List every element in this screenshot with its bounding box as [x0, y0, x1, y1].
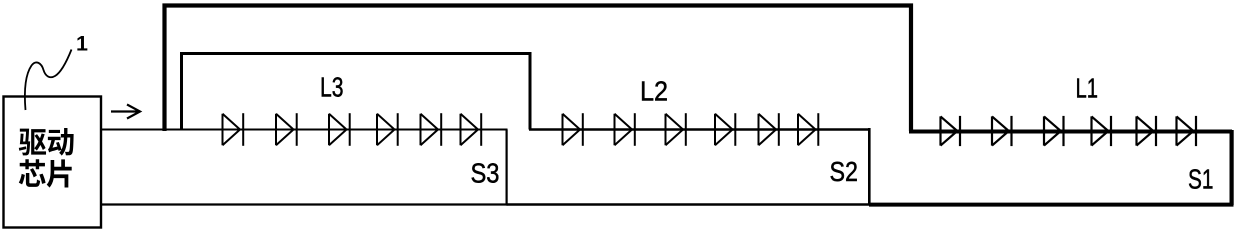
- svg-text:S3: S3: [471, 158, 500, 189]
- chip label char 芯: [19, 159, 46, 187]
- output current arrow: [111, 105, 140, 119]
- wire: L2 cathode drop to S2 return: [868, 128, 871, 205]
- svg-text:1: 1: [76, 32, 88, 56]
- LED 6 of string L3: [461, 113, 482, 146]
- LED 1 of string L3: [223, 113, 244, 146]
- LED 3 of string L2: [666, 113, 686, 146]
- LED 1 of string L1: [941, 116, 961, 146]
- LED 4 of string L3: [377, 113, 398, 146]
- wire: return bottom segment S3-to-S2: [507, 203, 871, 205]
- LED 5 of string L2: [759, 113, 779, 146]
- LED 6 of string L1: [1177, 116, 1197, 146]
- wire: L3 cathode drop to S3 return: [506, 130, 508, 205]
- LED 6 of string L2: [798, 113, 818, 146]
- chip label char 动: [48, 128, 74, 156]
- wire: L1 cathode drop to S1 return: [1229, 130, 1233, 205]
- LED 3 of string L3: [329, 113, 350, 146]
- wire: S2 loop feed (chip node up at x181, across, down to L2 anode): [182, 54, 531, 131]
- wire: chip output to L3 anode row: [100, 129, 508, 131]
- LED 4 of string L2: [715, 113, 735, 146]
- lead line to reference numeral 1: [25, 50, 72, 111]
- LED 4 of string L1: [1092, 116, 1112, 146]
- chip label char 片: [47, 159, 72, 187]
- wire: L2 anode row: [529, 128, 870, 130]
- LED 2 of string L1: [992, 116, 1012, 146]
- LED 1 of string L2: [563, 113, 583, 146]
- LED 2 of string L3: [276, 113, 297, 146]
- LED 3 of string L1: [1044, 116, 1064, 146]
- svg-text:S1: S1: [1188, 164, 1214, 195]
- svg-text:L1: L1: [1076, 73, 1099, 104]
- svg-text:S2: S2: [830, 156, 859, 187]
- svg-text:L3: L3: [320, 72, 344, 103]
- svg-text:L2: L2: [640, 76, 668, 107]
- wire: common return bottom segment chip-to-S3: [101, 203, 508, 205]
- wire: S1 loop top feed (chip node up at x165, across top, down to L1 anode): [165, 6, 912, 132]
- LED 2 of string L2: [615, 113, 635, 146]
- wire: L1 anode row: [909, 130, 1232, 134]
- wire: return bottom segment S2-to-S1: [869, 203, 1234, 207]
- driver chip U1 box: [4, 97, 102, 228]
- LED 5 of string L1: [1137, 116, 1157, 146]
- LED 5 of string L3: [421, 113, 442, 146]
- chip label char 驱: [19, 129, 46, 156]
